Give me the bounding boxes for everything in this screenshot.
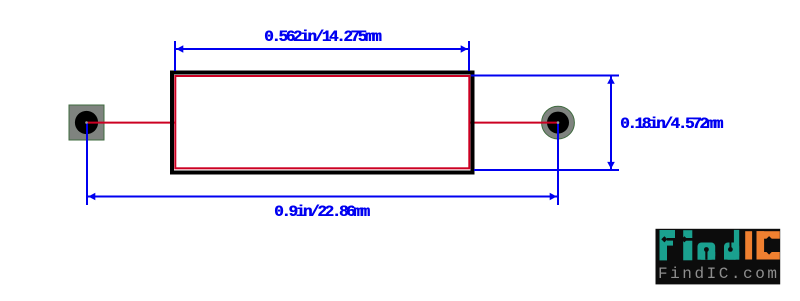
right dimension extension line top bbox=[471, 75, 619, 77]
left pad hole bbox=[75, 111, 98, 134]
bottom dimension extension line right bbox=[557, 123, 559, 205]
bottom dimension extension line left bbox=[86, 123, 88, 205]
right dimension line bbox=[610, 77, 612, 170]
logo i via dot bbox=[681, 236, 687, 242]
FindIC logo background bbox=[656, 229, 781, 285]
logo letter n bbox=[698, 243, 716, 260]
logo letter I bbox=[745, 231, 752, 259]
right pad hole bbox=[547, 112, 569, 134]
right pad (round) bbox=[542, 106, 575, 139]
logo F via dot bbox=[661, 236, 667, 242]
top dimension line bbox=[176, 48, 468, 50]
logo letter i bbox=[683, 230, 692, 260]
right dimension label 0.18in/4.572mm bbox=[620, 116, 721, 132]
logo letter F bbox=[660, 230, 676, 260]
right dimension arrow down bbox=[607, 162, 615, 169]
logo C via dots bbox=[766, 236, 772, 242]
bottom dimension label 0.9in/22.86mm bbox=[274, 204, 368, 220]
logo n slit bbox=[705, 251, 707, 260]
logo letter C bbox=[757, 231, 780, 259]
right dimension arrow up bbox=[607, 77, 615, 84]
logo letter d bbox=[724, 243, 739, 260]
right lead wire bbox=[469, 122, 558, 124]
right dimension extension line bottom bbox=[474, 169, 619, 171]
bottom dimension line bbox=[88, 196, 557, 198]
bottom dimension arrow right bbox=[550, 193, 557, 201]
logo wordmark FindIC.com bbox=[658, 266, 780, 282]
top dimension arrow right bbox=[461, 45, 468, 53]
top dimension extension line left bbox=[174, 41, 176, 71]
top dimension label 0.562in/14.275mm bbox=[264, 29, 379, 45]
logo d slit bbox=[730, 243, 732, 249]
left pad (square) bbox=[69, 105, 104, 140]
top dimension arrow left bbox=[176, 45, 183, 53]
left pad center mark bbox=[85, 121, 88, 124]
right pad center mark bbox=[557, 121, 560, 124]
logo n via dot bbox=[704, 247, 709, 252]
resistor body outline (red) bbox=[175, 76, 469, 168]
bottom dimension arrow left bbox=[88, 193, 95, 201]
left lead wire bbox=[86, 122, 176, 124]
logo d via dot bbox=[728, 247, 733, 252]
top dimension extension line right bbox=[468, 41, 470, 71]
resistor body outline (black) bbox=[172, 73, 473, 173]
